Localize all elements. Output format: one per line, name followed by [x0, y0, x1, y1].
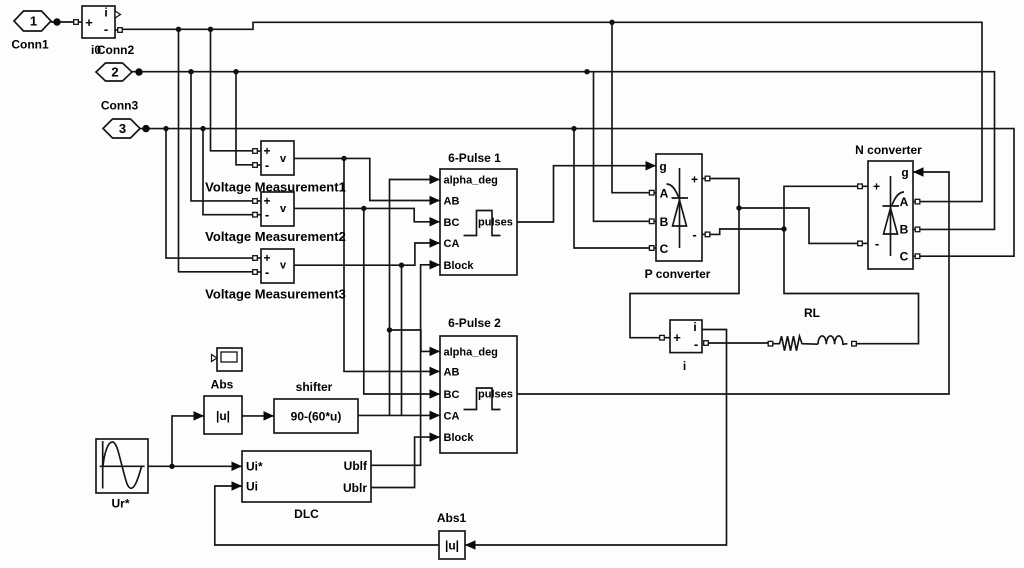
svg-text:90-(60*u): 90-(60*u): [291, 410, 342, 424]
svg-text:6-Pulse 1: 6-Pulse 1: [448, 151, 501, 165]
svg-text:Abs: Abs: [211, 378, 234, 392]
svg-text:Ublf: Ublf: [344, 459, 368, 473]
svg-text:Conn3: Conn3: [101, 99, 139, 113]
svg-text:+: +: [85, 15, 93, 30]
svg-text:C: C: [900, 250, 909, 264]
svg-text:C: C: [660, 242, 669, 256]
svg-text:v: v: [280, 153, 287, 165]
svg-text:alpha_deg: alpha_deg: [444, 175, 498, 187]
svg-text:i: i: [104, 6, 107, 20]
svg-text:alpha_deg: alpha_deg: [444, 346, 498, 358]
svg-text:6-Pulse 2: 6-Pulse 2: [448, 316, 501, 330]
svg-text:Ui: Ui: [246, 480, 258, 494]
svg-text:Block: Block: [444, 260, 475, 272]
svg-text:i: i: [683, 359, 686, 373]
svg-text:+: +: [263, 251, 270, 265]
svg-text:-: -: [265, 265, 269, 280]
svg-text:DLC: DLC: [294, 507, 319, 521]
svg-text:+: +: [873, 180, 880, 194]
svg-text:CA: CA: [444, 410, 460, 422]
svg-text:Conn2: Conn2: [97, 43, 135, 57]
svg-text:|u|: |u|: [445, 539, 459, 553]
svg-text:A: A: [900, 195, 909, 209]
svg-text:Ublr: Ublr: [343, 481, 367, 495]
svg-text:-: -: [875, 236, 879, 251]
svg-text:CA: CA: [444, 238, 460, 250]
svg-text:pulses: pulses: [478, 217, 513, 229]
svg-text:v: v: [280, 203, 287, 215]
svg-text:g: g: [901, 166, 908, 180]
svg-text:|u|: |u|: [216, 409, 230, 423]
svg-text:Abs1: Abs1: [437, 511, 467, 525]
svg-text:-: -: [104, 22, 108, 37]
svg-text:Ui*: Ui*: [246, 460, 263, 474]
svg-text:Voltage Measurement3: Voltage Measurement3: [205, 287, 346, 302]
svg-text:pulses: pulses: [478, 389, 513, 401]
svg-text:Ur*: Ur*: [111, 497, 129, 511]
svg-text:1: 1: [30, 14, 37, 29]
svg-text:Block: Block: [444, 432, 475, 444]
svg-text:A: A: [660, 187, 669, 201]
svg-text:-: -: [692, 227, 696, 242]
svg-text:Voltage Measurement2: Voltage Measurement2: [205, 229, 346, 244]
svg-text:3: 3: [119, 121, 126, 136]
svg-text:-: -: [694, 337, 698, 352]
svg-text:N converter: N converter: [855, 143, 922, 157]
svg-text:+: +: [263, 144, 270, 158]
svg-text:+: +: [691, 173, 698, 187]
svg-text:B: B: [660, 215, 669, 229]
svg-text:+: +: [263, 194, 270, 208]
svg-text:v: v: [280, 260, 287, 272]
svg-text:shifter: shifter: [296, 380, 333, 394]
svg-text:2: 2: [111, 65, 118, 80]
svg-text:-: -: [265, 158, 269, 173]
svg-text:AB: AB: [444, 196, 460, 208]
svg-text:Conn1: Conn1: [11, 38, 49, 52]
svg-text:i: i: [693, 320, 696, 334]
svg-text:AB: AB: [444, 366, 460, 378]
svg-text:+: +: [673, 330, 681, 345]
svg-text:BC: BC: [444, 217, 460, 229]
svg-text:P converter: P converter: [645, 267, 711, 281]
svg-text:-: -: [265, 207, 269, 222]
svg-text:BC: BC: [444, 389, 460, 401]
svg-text:B: B: [900, 223, 909, 237]
svg-text:RL: RL: [804, 306, 820, 320]
svg-text:g: g: [659, 160, 666, 174]
